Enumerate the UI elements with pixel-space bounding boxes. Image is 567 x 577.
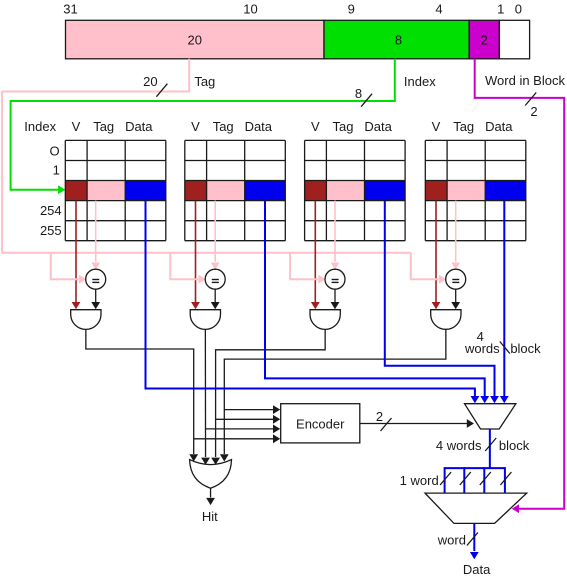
svg-text:Hit: Hit (202, 509, 218, 524)
svg-text:Tag: Tag (213, 119, 234, 134)
wire: G2 output straight down (204, 329, 206, 457)
svg-text:V: V (191, 119, 200, 134)
wire: branch from G4 line to encoder input 1 (224, 409, 273, 411)
wire: comparator 3 output to AND gate (334, 289, 336, 302)
svg-text:word: word (437, 533, 466, 548)
wire: comparator 2 output to AND gate (214, 289, 216, 302)
wire: comparator 1 output to AND gate (95, 289, 97, 302)
wire: Word in Block bus (magenta) (475, 59, 565, 509)
svg-text:Data: Data (463, 562, 491, 577)
svg-text:9: 9 (348, 2, 355, 17)
svg-text:Data: Data (245, 119, 273, 134)
wire: G4 output down-left (224, 329, 446, 454)
wire: way 1 valid bit V to AND gate (dark red) (75, 201, 77, 303)
cache way 4: V/Tag/Data table (425, 119, 526, 241)
svg-text:Data: Data (485, 119, 513, 134)
svg-text:O: O (49, 143, 59, 158)
wire: encoder 2-bit select to mux M1 (360, 423, 467, 425)
wire: comparator 4 output to AND gate (455, 289, 457, 302)
wire: way 2 data bus to mux M1 (blue) (265, 201, 485, 397)
wire: M2 output word (blue) (473, 523, 475, 551)
wire: way 3 stored tag to comparator (pink) (334, 201, 336, 262)
svg-text:31: 31 (63, 2, 77, 17)
svg-text:Data: Data (125, 119, 153, 134)
wire: G3 output down-left (216, 329, 326, 457)
svg-text:V: V (311, 119, 320, 134)
comparator U3 (=) (325, 269, 345, 289)
svg-text:20: 20 (143, 74, 157, 89)
svg-text:Encoder: Encoder (296, 416, 345, 431)
mux M2 (word select multiplexor) (425, 493, 527, 523)
address field Tag (bits 31-10), value 20 (66, 20, 325, 59)
wire: branch from G3 line to encoder input 2 (216, 418, 274, 420)
wire: way 3 valid bit V to AND gate (dark red) (314, 201, 316, 303)
svg-text:Tag: Tag (453, 119, 474, 134)
wire: way 3 data bus to mux M1 (blue) (385, 201, 495, 397)
address field Index (bits 9-4), value 8 (324, 20, 469, 59)
svg-text:0: 0 (515, 2, 522, 17)
address field byte offset (bits 1-0) (499, 20, 529, 59)
AND gate G3 (310, 310, 340, 330)
svg-text:2: 2 (530, 104, 537, 119)
comparator U4 (=) (446, 269, 466, 289)
encoder U5 (281, 404, 360, 443)
svg-text:Data: Data (364, 119, 392, 134)
svg-text:8: 8 (355, 86, 362, 101)
wire: tag bus branch to comparator 4 (pink) (411, 253, 439, 280)
AND gate G2 (190, 310, 220, 330)
svg-text:Index: Index (24, 119, 56, 134)
svg-text:8: 8 (395, 33, 402, 48)
wire: tag bus branch to comparator 3 (pink) (290, 253, 318, 280)
cache way 3: V/Tag/Data table (305, 119, 406, 241)
arrowhead: index into way tables row (58, 185, 65, 194)
wire: branch from G1 line to encoder input 4 (194, 438, 274, 440)
wire: branch from G2 line to encoder input 3 (206, 428, 274, 430)
svg-text:20: 20 (188, 33, 202, 48)
svg-text:2: 2 (481, 33, 488, 48)
OR gate (hit detection) (190, 460, 232, 489)
wire: tag bus branch to comparator 2 (pink) (170, 253, 198, 280)
wire: G1 output down-right to OR/encoder column (86, 329, 194, 454)
wire: way 1 data bus to mux M1 (blue) (146, 201, 475, 397)
svg-text:4 words: 4 words (436, 438, 482, 453)
arrowhead: word select into mux M2 (512, 504, 519, 513)
AND gate G1 (71, 310, 101, 330)
wire: hit output (210, 488, 212, 497)
svg-text:Tag: Tag (194, 74, 215, 89)
wire: Tag bus from address (pink) (2, 59, 411, 253)
address field Word in Block (bits 3-2), value 2 (469, 20, 499, 59)
mux M1 (4-to-1 block multiplexor) (465, 404, 516, 429)
wire: way 1 stored tag to comparator (pink) (95, 201, 97, 262)
label: slash marks on word lines (440, 472, 511, 485)
svg-text:words: words (464, 341, 500, 356)
svg-text:1: 1 (53, 163, 60, 178)
comparator U2 (=) (205, 269, 225, 289)
wire: way 4 valid bit V to AND gate (dark red) (435, 201, 437, 303)
svg-text:V: V (72, 119, 81, 134)
wire: Index bus from address (green) (11, 59, 395, 190)
svg-text:Word in Block: Word in Block (485, 73, 565, 88)
cache way 1: V/Tag/Data table (65, 119, 166, 241)
svg-text:Tag: Tag (93, 119, 114, 134)
svg-text:V: V (432, 119, 441, 134)
svg-text:4: 4 (435, 2, 442, 17)
svg-text:block: block (499, 438, 530, 453)
svg-text:Tag: Tag (333, 119, 354, 134)
svg-text:2: 2 (376, 409, 383, 424)
comparator U1 (=) (86, 269, 106, 289)
svg-text:254: 254 (40, 203, 62, 218)
label: bus width 2 with slash (525, 93, 536, 106)
wire: way 2 valid bit V to AND gate (dark red) (195, 201, 197, 303)
svg-text:1 word: 1 word (400, 473, 439, 488)
svg-text:1: 1 (497, 2, 504, 17)
wire: way 2 stored tag to comparator (pink) (214, 201, 216, 262)
svg-text:255: 255 (40, 223, 62, 238)
wire: tag bus branch to comparator 1 (pink) (51, 253, 79, 280)
wire: way 4 data bus to mux M1 (blue) (503, 201, 505, 397)
wire: block bus split into 4 word lines (blue) (445, 467, 505, 493)
svg-text:block: block (510, 341, 541, 356)
AND gate G4 (431, 310, 461, 330)
wire: M1 output block bus (blue) (489, 429, 491, 468)
svg-text:Index: Index (404, 74, 436, 89)
wire: way 4 stored tag to comparator (pink) (455, 201, 457, 262)
svg-text:10: 10 (243, 2, 257, 17)
cache way 2: V/Tag/Data table (185, 119, 285, 241)
